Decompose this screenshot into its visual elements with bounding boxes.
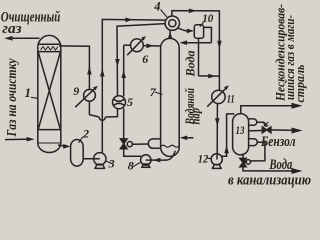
separator 13 — [233, 114, 249, 155]
column 1 demister band — [38, 43, 61, 45]
svg-text:6: 6 — [142, 52, 148, 66]
nozzle upper on 13 — [249, 119, 257, 125]
arrow right 6 to column7 — [146, 44, 153, 49]
svg-text:Вода: Вода — [183, 50, 198, 77]
wire column1 bottom to vessel2 — [58, 145, 66, 146]
valve cluster pump8 hourglass — [120, 139, 127, 149]
wire hop to cooler5 bottom — [105, 109, 117, 117]
svg-text:5: 5 — [127, 95, 133, 109]
leader label 8 — [133, 163, 140, 167]
svg-text:страль: страль — [293, 64, 307, 102]
arrow gas inlet (right) — [27, 137, 35, 142]
wire pump3 riser to line A — [102, 19, 165, 153]
arrow diag 11 — [224, 85, 229, 90]
arrow left into pump8 — [153, 158, 160, 163]
svg-text:10: 10 — [202, 11, 213, 25]
svg-text:пар: пар — [188, 108, 203, 125]
wire gas inlet — [5, 138, 31, 141]
wire 6 to column7 — [143, 45, 160, 47]
svg-text:4: 4 — [153, 0, 160, 14]
leader label 4 — [161, 10, 167, 18]
wire cluster down to pump8 — [124, 149, 141, 156]
arrow water sewer — [292, 168, 303, 174]
svg-text:9: 9 — [73, 84, 79, 98]
arrow purified gas (left) — [4, 36, 12, 41]
arrow diag 6 — [141, 36, 146, 41]
wire nozzle to benzene valve — [257, 122, 267, 127]
dephlegmator 4 inner — [169, 20, 176, 27]
wire column7 bottoms to pump8 — [151, 151, 175, 160]
arrow down main line — [217, 41, 222, 49]
wire condensate branch to main line — [199, 75, 220, 77]
column 7 desorption column — [161, 38, 180, 156]
arrow down into pump12 — [215, 118, 220, 126]
svg-text:в канализацию: в канализацию — [228, 172, 311, 188]
svg-text:12: 12 — [198, 152, 209, 166]
pump 12 — [211, 154, 222, 165]
leader label 2 — [79, 137, 83, 143]
wire pump12 discharge to separator 13 — [222, 114, 235, 156]
svg-text:Бензол: Бензол — [260, 134, 295, 150]
column 1 liquid level line — [38, 142, 61, 144]
svg-text:11: 11 — [227, 91, 235, 105]
column 7 liquid level squiggle — [161, 145, 179, 147]
arrow up pump3 riser — [100, 69, 105, 77]
wire column7 vapor to dephlegmator 4 — [169, 30, 171, 38]
heat exchanger 9 — [84, 89, 96, 101]
svg-text:13: 13 — [236, 123, 245, 137]
arrow up vapor into 4 — [168, 32, 173, 39]
nozzle column7 bottom left — [148, 139, 160, 148]
wire 10 bottom pipe — [198, 38, 200, 76]
leader label 1 — [31, 97, 39, 98]
vessel 2 collector — [71, 140, 84, 167]
leader label 3 — [106, 161, 112, 164]
arrow up pump12 discharge — [224, 145, 229, 153]
arrow into vessel2 (right) — [63, 144, 70, 149]
wire steam inlet — [184, 137, 194, 139]
separator 10 — [194, 25, 203, 39]
arrow benzene — [292, 128, 303, 134]
svg-text:Газ на очистку: Газ на очистку — [5, 58, 20, 137]
svg-text:2: 2 — [82, 127, 89, 141]
svg-text:7: 7 — [150, 85, 157, 99]
wire lean oil riser (valve cluster to heater 6) — [123, 108, 125, 139]
wire 4 top to main line — [172, 11, 220, 91]
wire pump12 suction chord — [216, 154, 218, 160]
arrow right condensate branch — [208, 74, 215, 79]
svg-text:газ: газ — [2, 21, 21, 37]
wire vessel2 to pump3 — [83, 158, 100, 160]
arrow up into column1 line — [87, 67, 92, 75]
pump 3 — [94, 153, 106, 165]
leader label 12 — [207, 157, 212, 160]
valve benzene bowtie — [262, 127, 271, 133]
dephlegmator 4 outer — [165, 16, 179, 30]
svg-text:Вода: Вода — [269, 157, 293, 173]
leader label 10 — [200, 22, 204, 27]
arrow right on line A — [125, 18, 133, 23]
wire 4 to separator 10 — [177, 28, 191, 31]
svg-text:1: 1 — [25, 85, 32, 100]
heater 6 — [131, 39, 144, 52]
valve bottom hourglass — [240, 158, 246, 166]
wire 13 bottom outlet — [242, 153, 244, 158]
wire cooler5 top to line B — [117, 24, 165, 96]
leader label 7 — [155, 92, 163, 95]
wire hop over riser — [99, 117, 105, 120]
column 1 scrubber shell — [38, 35, 61, 46]
wire water to sewer — [243, 167, 294, 171]
arrow up lean riser — [121, 70, 126, 78]
arrow into 10 — [187, 29, 194, 34]
arrow gas to main — [292, 103, 303, 109]
cooler 5 — [113, 96, 126, 109]
valve bottom side tap — [243, 161, 246, 164]
nozzle lower on 13 — [249, 139, 258, 146]
column 1 support plate — [38, 129, 61, 131]
arrow steam into column7 — [180, 136, 187, 141]
arrow reflux left into column7 — [180, 40, 187, 45]
arrow diag 9 — [93, 86, 98, 91]
wire valve to column7 nozzle — [132, 143, 148, 145]
wire reflux to column7 — [184, 42, 212, 44]
column 1 packing X — [38, 52, 60, 129]
wire 11 to pump 12 — [216, 104, 218, 154]
svg-text:3: 3 — [108, 157, 115, 171]
arrow down into cooler5 — [115, 59, 120, 67]
cooler 11 — [212, 90, 225, 103]
wire lower nozzle loop — [250, 142, 265, 161]
wire 10 right loop — [204, 27, 212, 42]
wire purified gas outlet — [8, 37, 40, 39]
valve benzene handle cross — [264, 122, 269, 127]
arrow right top main line — [189, 9, 197, 14]
wire lean oil into column1 top — [59, 46, 89, 72]
wire 9 bottom to hop — [89, 101, 99, 117]
wire gas to main from 13 — [241, 106, 294, 113]
pump 8 — [141, 155, 151, 165]
svg-text:8: 8 — [128, 159, 134, 173]
wire benzene line — [249, 130, 263, 132]
